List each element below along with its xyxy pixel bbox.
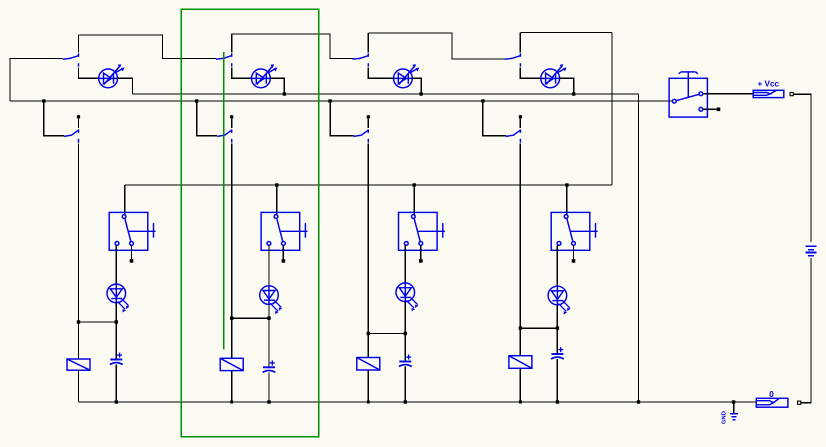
wire ch2 tie — [232, 317, 269, 319]
wire bottom bus (y=402) — [79, 401, 757, 403]
wire to coil L2 — [231, 318, 233, 358]
junction node ch3 left — [367, 332, 370, 335]
wire capacitor C2 to bottom bus — [268, 372, 270, 402]
switch S5 top pin stem — [78, 118, 80, 128]
junction L3 bottom — [367, 401, 370, 404]
relay coil L2 — [220, 358, 243, 370]
junction ground tap — [732, 400, 735, 403]
junction bus to switch S7 — [328, 99, 331, 102]
wire S4 chain end — [520, 32, 612, 34]
relay contact K2 — [261, 212, 307, 250]
switch S7 top pin stem — [367, 118, 369, 128]
wire S9 NC stub — [703, 108, 717, 110]
wire S5 down — [78, 144, 80, 323]
junction node ch1 left — [77, 320, 80, 323]
wire S3 to S4 chain — [368, 33, 506, 59]
pushbutton S9 (master, SPDT) — [669, 72, 707, 117]
wire S2 to LED D2 — [232, 67, 252, 78]
junction node ch2 right — [267, 317, 270, 320]
junction C1 bottom — [115, 400, 118, 403]
relay coil L4 — [509, 356, 532, 369]
switch S8 top pin stem — [519, 118, 521, 128]
wire LED chain bus (y=94) — [133, 93, 639, 95]
wire relay K4 to LED D8 — [556, 245, 558, 286]
switch S4 (push-to-make, top row) — [505, 53, 521, 66]
junction L4 bottom — [519, 401, 522, 404]
junction D4 chain — [572, 92, 575, 95]
wire to capacitor C4 — [556, 328, 558, 354]
wire to ground — [733, 402, 735, 413]
wire bus to switch S8 — [483, 101, 506, 136]
junction relay K3 feed — [413, 183, 416, 186]
junction node ch4 left — [519, 326, 522, 329]
wire S2 to S3 chain — [232, 34, 355, 59]
LED D7 — [396, 283, 415, 302]
wire bus to relay K4 — [566, 185, 568, 215]
junction bus to switch S5 — [42, 99, 45, 102]
wire to capacitor C1 — [115, 322, 117, 360]
selection rectangle — [181, 9, 318, 437]
switch S7 unconnected pin — [367, 115, 370, 118]
selected wire (green) — [223, 52, 225, 350]
relay K4 unused pin wire — [573, 245, 575, 259]
relay K1 unused pin — [130, 259, 134, 263]
junction D2 chain — [283, 92, 286, 95]
wire capacitor C3 to bottom bus — [404, 367, 406, 403]
wire coil L2 to bottom bus — [231, 371, 233, 402]
switch S6 (second row) — [217, 129, 232, 142]
wire relay K2 to LED D6 — [268, 245, 270, 285]
wire supply bus (y=101) — [10, 100, 672, 102]
wire S1 to S2 chain — [79, 35, 217, 59]
relay K2 unused pin — [282, 259, 286, 263]
wire bus to relay K1 — [124, 185, 126, 215]
relay K1 unused pin wire — [131, 245, 133, 259]
switch S7 (second row) — [354, 129, 369, 142]
wire LED D8 down — [556, 305, 558, 328]
LED D8 — [548, 286, 567, 305]
wire bus to switch S6 — [197, 101, 218, 136]
wire ch3 tie — [368, 333, 405, 335]
switch S2 (push-to-make, top row) — [216, 53, 232, 66]
svg-text:GND: GND — [722, 411, 728, 424]
relay contact K1 — [109, 212, 155, 250]
LED D1 — [99, 65, 124, 87]
wire bus to switch S7 — [330, 101, 354, 136]
wire to switch S3 contact — [367, 33, 369, 53]
relay K3 unused pin — [419, 259, 423, 263]
junction bus to switch S8 — [481, 99, 484, 102]
junction D3 chain — [419, 92, 422, 95]
svg-text:0: 0 — [769, 390, 774, 399]
wire chain end riser — [611, 33, 613, 186]
LED D6 — [260, 286, 279, 305]
LED D3 — [394, 65, 419, 87]
switch S5 (second row) — [64, 129, 79, 142]
wire bus to switch S5 — [44, 101, 64, 136]
junction C4 bottom — [556, 400, 559, 403]
switch S8 (second row) — [506, 129, 521, 142]
wire S3 to LED D3 — [368, 67, 393, 78]
junction C2 bottom — [267, 400, 270, 403]
pin +Vcc output — [790, 93, 793, 96]
relay K3 unused pin wire — [420, 245, 422, 259]
wire LED D7 down — [404, 302, 406, 334]
wire LED D3 to chain bus — [412, 78, 421, 94]
pin 0V output — [798, 401, 801, 404]
wire coil L1 to bottom bus — [78, 370, 80, 402]
capacitor C4 (polarized) — [551, 347, 564, 359]
wire to coil L4 — [519, 328, 521, 356]
power supply +Vcc — [753, 90, 784, 97]
wire to capacitor C2 — [268, 318, 270, 367]
junction node ch2 left — [230, 317, 233, 320]
wire S1 to LED D1 — [79, 67, 99, 78]
junction bus to switch S6 — [195, 99, 198, 102]
wire S4 to LED D4 — [520, 67, 540, 78]
wire +Vcc to battery — [793, 94, 811, 242]
wire coil L4 to bottom bus — [519, 368, 521, 402]
wire capacitor C4 to bottom bus — [556, 359, 558, 402]
wire to coil L1 — [78, 322, 80, 359]
wire LED D4 to chain bus — [560, 78, 574, 94]
LED D4 — [541, 65, 566, 87]
wire capacitor C1 to bottom bus — [115, 365, 117, 403]
LED D2 — [252, 65, 277, 87]
wire relay K3 to LED D7 — [404, 245, 406, 283]
wire to capacitor C3 — [404, 334, 406, 362]
wire to switch S1 contact — [78, 35, 80, 53]
switch S6 top pin stem — [231, 118, 233, 128]
junction relay K2 feed — [275, 183, 278, 186]
wire LED D6 down — [268, 304, 270, 318]
switch S3 (push-to-make, top row) — [353, 53, 369, 66]
wire to switch S2 contact — [231, 34, 233, 53]
wire ch4 tie — [520, 327, 557, 329]
junction node ch4 right — [556, 326, 559, 329]
capacitor C3 (polarized) — [399, 355, 412, 367]
wire coil L3 to bottom bus — [367, 370, 369, 402]
wire left feed riser — [10, 59, 63, 102]
junction node ch3 right — [404, 332, 407, 335]
svg-text:+ Vcc: + Vcc — [757, 80, 779, 89]
relay coil L3 — [357, 358, 380, 371]
wire LED D1 to chain bus — [118, 78, 133, 94]
capacitor C2 (polarized) — [263, 360, 276, 372]
pin S9 unconnected — [717, 108, 721, 112]
wire S7 down — [367, 144, 369, 334]
wire to switch S4 contact — [519, 33, 521, 53]
switch S8 unconnected pin — [519, 115, 522, 118]
junction chain riser bottom — [637, 400, 640, 403]
switch S1 (push-to-make, top row) — [63, 53, 79, 66]
relay coil L1 — [67, 359, 90, 370]
relay contact K3 — [399, 212, 445, 250]
wire S6 down — [231, 144, 233, 319]
relay K4 unused pin — [572, 259, 576, 263]
switch S5 unconnected pin — [77, 115, 80, 118]
wire relay bus (y=185) — [125, 184, 612, 186]
switch S6 unconnected pin — [230, 115, 233, 118]
relay K2 unused pin wire — [282, 245, 284, 259]
junction C3 bottom — [404, 400, 407, 403]
relay contact K4 — [551, 212, 597, 250]
junction node ch1 right — [115, 320, 118, 323]
wire S9 to +Vcc supply — [703, 93, 753, 95]
wire LED D5 down — [115, 303, 117, 322]
wire to coil L3 — [367, 334, 369, 358]
capacitor C1 (polarized) — [110, 353, 123, 365]
wire S8 down — [519, 144, 521, 329]
wire bus to relay K3 — [413, 185, 415, 215]
wire relay K1 to LED D5 — [115, 245, 117, 284]
wire bus to relay K2 — [276, 185, 278, 215]
junction relay K4 feed — [565, 183, 568, 186]
wire battery to 0V supply — [801, 258, 811, 403]
wire LED chain to bottom bus — [638, 94, 640, 402]
junction L2 bottom — [230, 401, 233, 404]
wire LED D2 to chain bus — [270, 78, 284, 94]
LED D5 — [107, 284, 126, 303]
wire ch1 tie — [79, 321, 117, 323]
battery B1 — [805, 246, 816, 255]
power supply 0 — [756, 398, 788, 407]
